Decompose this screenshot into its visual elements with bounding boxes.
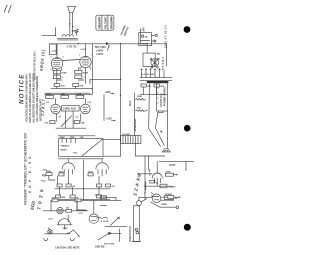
resistor trem low	[164, 194, 177, 200]
resistor trem plate	[165, 172, 178, 177]
svg-text:1M: 1M	[175, 198, 178, 200]
wire bottom bus	[45, 93, 92, 95]
svg-text:CAUTION: SEE NOTE: CAUTION: SEE NOTE	[55, 247, 80, 250]
wire tone to B+	[103, 138, 121, 140]
wire B+ rail	[50, 42, 167, 45]
triode V3b	[81, 98, 91, 113]
roach top tube	[136, 199, 146, 206]
svg-text:250K: 250K	[70, 137, 76, 139]
inductor vertical coil	[135, 119, 136, 131]
capacitor pre row2	[57, 184, 115, 188]
resistor psu a	[141, 84, 152, 88]
svg-text:250K: 250K	[60, 137, 66, 139]
wire lamp row	[43, 200, 88, 211]
wire osc right	[161, 196, 181, 205]
resistor pre c	[88, 172, 93, 176]
svg-text:470K: 470K	[61, 71, 67, 74]
wire trem plate top	[159, 161, 194, 171]
svg-text:BIAS: BIAS	[129, 100, 132, 106]
wire PI cathodes	[56, 111, 80, 128]
svg-text:ALL RESISTORS 1/2 WATT UNLESS: ALL RESISTORS 1/2 WATT UNLESS NOTED	[32, 73, 36, 124]
wire plate link	[63, 60, 80, 61]
wire PI diagonal	[61, 116, 72, 127]
svg-text:220K: 220K	[166, 172, 171, 174]
label PI volts	[45, 102, 93, 119]
wire trem bias line	[134, 93, 136, 135]
resistor heater b	[75, 197, 82, 202]
svg-text:+150: +150	[106, 117, 112, 121]
label lamp values	[48, 227, 68, 230]
svg-text:10MEG: 10MEG	[168, 187, 175, 189]
resistor pre b	[59, 172, 64, 176]
svg-text:CHOKE: CHOKE	[122, 134, 130, 136]
svg-text:47K: 47K	[75, 197, 79, 200]
label FENDER title	[24, 133, 37, 210]
resistor grid V5 a	[75, 70, 89, 74]
resistor tail b	[74, 121, 85, 125]
svg-text:FOOT SW: FOOT SW	[104, 244, 115, 246]
label +325V	[105, 90, 115, 94]
pot arc 6.3V	[48, 218, 72, 229]
svg-text:6.3V: 6.3V	[79, 213, 84, 215]
svg-text:TRY 420V: TRY 420V	[95, 46, 107, 49]
svg-text:ALL CAPS 600V UNLESS OTHERWISE: ALL CAPS 600V UNLESS OTHERWISE	[35, 76, 39, 123]
note box (tube chart)	[96, 15, 114, 30]
pilot tube circle	[57, 208, 63, 214]
svg-text:+325: +325	[105, 90, 111, 94]
wire heater bus	[51, 200, 121, 205]
svg-text:+410V: +410V	[51, 50, 58, 53]
svg-text:TREBLE: TREBLE	[61, 146, 70, 148]
resistor feedback 470	[72, 29, 79, 36]
capacitor trem mid	[146, 181, 176, 189]
svg-text:82K: 82K	[61, 94, 65, 96]
svg-text:56K: 56K	[137, 107, 141, 109]
svg-text:GND SW: GND SW	[95, 247, 105, 249]
svg-text:NOTICE: NOTICE	[19, 73, 26, 104]
svg-text:47K: 47K	[52, 197, 56, 200]
power transformer T1	[148, 82, 168, 113]
svg-text:POWER TRANS.: POWER TRANS.	[164, 86, 167, 106]
svg-text:TUBE V.CHART: TUBE V.CHART	[98, 16, 101, 29]
svg-text:100K: 100K	[46, 171, 51, 173]
rectifier tube V7 5Y3	[143, 44, 161, 68]
svg-text:TREM ROACH: TREM ROACH	[129, 226, 132, 242]
label plate V	[51, 48, 87, 53]
wire NFB	[42, 28, 56, 37]
svg-text:.047: .047	[143, 27, 146, 32]
wire pre connectors	[49, 176, 99, 196]
svg-text:100K: 100K	[46, 94, 51, 96]
pilot lamp	[48, 230, 53, 235]
preamp tube V1a dome	[62, 163, 75, 176]
wire PI plate drop	[103, 95, 105, 121]
svg-text:+410V: +410V	[80, 48, 87, 51]
svg-text:FUSE: FUSE	[141, 43, 147, 45]
resistor grid V4 b	[53, 75, 64, 79]
svg-text:6-8W: 6-8W	[63, 228, 68, 230]
OT secondary box	[50, 44, 57, 55]
resistor osc	[151, 195, 179, 208]
label +150	[106, 117, 116, 122]
svg-text:125P1B FDR: 125P1B FDR	[161, 93, 163, 107]
wire screen bus	[51, 87, 93, 90]
resistor grid V5 b	[75, 75, 86, 79]
punch hole top	[184, 26, 191, 33]
wire PI bottom	[56, 128, 95, 136]
resistor screen a	[54, 83, 65, 87]
svg-text:68K: 68K	[62, 197, 66, 199]
wire AC cord + plug	[152, 34, 158, 42]
resistor grid V4 a	[53, 70, 67, 74]
label ground switch	[120, 25, 130, 37]
heater tube circle2	[89, 200, 98, 223]
resistor PI c	[76, 94, 84, 98]
svg-text:6.8K: 6.8K	[80, 122, 85, 124]
wire preamp top	[58, 159, 103, 162]
wire B+ vertical	[120, 44, 121, 157]
resistor pre a	[46, 171, 52, 176]
fuse box F1	[139, 33, 152, 46]
punch hole middle	[184, 125, 191, 132]
wire mid link	[103, 143, 165, 156]
bell chassis dome	[162, 149, 171, 152]
svg-text:6.3V-2A: 6.3V-2A	[101, 220, 109, 223]
wire pre row3	[54, 199, 110, 201]
wire speaker leads	[69, 12, 74, 34]
wire pre vertical	[83, 160, 84, 200]
power tube V5 6BQ5	[80, 44, 91, 69]
resistor pre row3	[56, 195, 107, 199]
power tube V4 6BQ5	[51, 44, 62, 70]
svg-text:TWL. 115VAC: TWL. 115VAC	[104, 16, 107, 29]
resistor trem a	[136, 96, 146, 100]
pin labels V4	[51, 55, 94, 71]
wire ground switch lead	[140, 27, 146, 44]
label +420V	[96, 45, 110, 56]
svg-text:NOTED ON CHART: NOTED ON CHART	[39, 99, 43, 121]
wire heater drops	[68, 200, 86, 222]
resistor lamp row	[66, 208, 72, 213]
switch lever	[111, 217, 120, 225]
svg-text:2A: 2A	[145, 36, 148, 39]
trem tube V2a dome	[141, 161, 162, 185]
output transformer T2	[58, 35, 78, 40]
label 12AX7 (2)	[132, 172, 142, 196]
wire trem vertical	[144, 156, 148, 200]
svg-text:+415V: +415V	[169, 164, 176, 167]
resistor PI b	[61, 94, 69, 98]
wire pre row2	[55, 188, 110, 190]
svg-text:220K: 220K	[137, 96, 143, 98]
trem osc tube circle	[139, 194, 161, 203]
notice paragraph	[25, 73, 43, 124]
resistor screen b	[73, 83, 84, 87]
svg-text:5 TO 7Ω: 5 TO 7Ω	[67, 45, 77, 49]
svg-text:100K: 100K	[76, 94, 81, 96]
svg-text:+420V: +420V	[96, 48, 104, 52]
svg-text:10K: 10K	[80, 137, 84, 139]
preamp tube V1b dome	[96, 163, 109, 176]
resistor psu b	[154, 84, 165, 88]
resistor heater top	[95, 194, 116, 200]
svg-text:VOL: VOL	[73, 153, 78, 155]
svg-text:20 20 20 20MF: 20 20 20 20MF	[141, 74, 155, 76]
tone block box	[59, 137, 103, 156]
trem tube V2b marks	[151, 193, 153, 197]
wire PI top	[45, 92, 91, 94]
svg-text:TREM: TREM	[161, 204, 167, 206]
svg-text:6.3V: 6.3V	[48, 218, 53, 220]
svg-text:+415V: +415V	[96, 52, 104, 56]
wire right drop	[166, 44, 168, 66]
svg-text:FENDER “TREMOLUX” SCHEMATIC N: FENDER “TREMOLUX” SCHEMATIC NO	[24, 133, 28, 205]
speaker SP	[68, 7, 76, 13]
svg-text:1 MEG AUD: 1 MEG AUD	[63, 108, 76, 111]
resistor PI a	[46, 94, 54, 98]
svg-text:VOLTAGES READ WITH VTVM AND MA: VOLTAGES READ WITH VTVM AND MAY	[25, 74, 29, 122]
roach box	[132, 206, 140, 242]
svg-text:470: 470	[72, 29, 77, 33]
svg-text:VARY PLUS OR MINUS 20% LINE AT: VARY PLUS OR MINUS 20% LINE AT 117V	[28, 73, 32, 123]
wire cathodes	[57, 68, 86, 84]
svg-text:BASS: BASS	[61, 149, 68, 152]
wire lamp bus	[44, 230, 80, 241]
wire node 79	[90, 80, 121, 84]
wire psu bottom	[140, 87, 167, 95]
triode V3a	[51, 98, 61, 113]
punch hole bottom	[184, 224, 191, 231]
resistor tail a	[45, 121, 55, 125]
capacitor filter bank	[140, 69, 172, 81]
page number mark //	[4, 5, 11, 13]
svg-text:FDR 6G9 AMP: FDR 6G9 AMP	[110, 16, 113, 29]
resistor interstage	[62, 106, 80, 111]
wire transformer lead	[149, 84, 165, 147]
heater arcs small	[97, 217, 128, 226]
choke L1	[121, 134, 141, 144]
wire right vertical	[167, 111, 169, 148]
switch arrow	[98, 229, 121, 246]
svg-text:5Y3GT: 5Y3GT	[161, 57, 165, 70]
resistor trem b	[136, 107, 148, 111]
wire screen drop	[91, 44, 93, 95]
resistor heater a	[52, 197, 59, 202]
